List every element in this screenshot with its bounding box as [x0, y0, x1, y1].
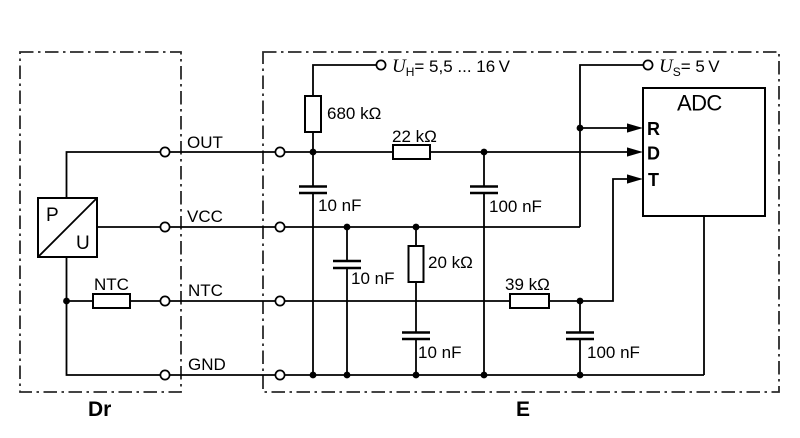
svg-text:T: T: [648, 170, 659, 190]
junction node OUT/680k/10nF: [310, 149, 317, 156]
svg-text:100 nF: 100 nF: [489, 197, 542, 216]
sensor block P/U (pressure to voltage transducer): [38, 198, 97, 257]
junction node GND/100nF: [481, 372, 488, 379]
wire ADC ground return: [703, 216, 705, 375]
junction node GND/10nF mid: [344, 372, 351, 379]
capacitor 100nF (T node to GND): [566, 301, 594, 375]
resistor 20 kOhm body: [409, 246, 424, 282]
svg-text:GND: GND: [188, 355, 226, 374]
svg-text:ADC: ADC: [677, 91, 722, 116]
svg-text:R: R: [647, 119, 660, 139]
junction node NTC sensor tap: [63, 298, 70, 305]
wire US supply vertical to VCC and R input: [580, 65, 643, 227]
terminal NTC (Dr side): [160, 296, 169, 305]
junction node GND/100nF right: [577, 372, 584, 379]
wire GND net: [67, 257, 705, 375]
junction node GND/10nF left: [310, 372, 317, 379]
svg-text:VCC: VCC: [187, 207, 223, 226]
svg-text:NTC: NTC: [188, 281, 223, 300]
junction node OUT/100nF: [481, 149, 488, 156]
terminal OUT (Dr side): [160, 147, 169, 156]
junction node GND/10nF 20k branch: [413, 372, 420, 379]
junction node US/R: [577, 125, 584, 132]
wire OUT net (sensor output to ADC D input): [67, 152, 638, 198]
svg-text:39 kΩ: 39 kΩ: [505, 275, 550, 294]
svg-text:20 kΩ: 20 kΩ: [428, 253, 473, 272]
svg-text:Dr: Dr: [88, 398, 111, 421]
svg-text:US= 5 V: US= 5 V: [659, 56, 720, 79]
svg-text:NTC: NTC: [94, 275, 129, 294]
enclosure box E (ECU, dash-dot border): [263, 52, 779, 392]
resistor 20k with capacitor branch (VCC to GND): [415, 227, 417, 375]
resistor 39 kOhm (series in NTC line): [510, 294, 549, 308]
svg-text:10 nF: 10 nF: [318, 196, 361, 215]
junction node 39k/T/100nF: [577, 298, 584, 305]
svg-text:D: D: [647, 144, 660, 164]
junction node VCC/10nF: [344, 224, 351, 231]
svg-text:P: P: [46, 205, 59, 226]
svg-text:E: E: [516, 398, 530, 421]
terminal UH supply: [376, 60, 385, 69]
ADC block U1: [643, 88, 765, 216]
wire R input branch: [580, 127, 637, 129]
arrowhead into pin R: [627, 123, 643, 132]
capacitor 10nF (VCC to GND): [333, 227, 361, 375]
terminal VCC (Dr side): [160, 222, 169, 231]
resistor NTC (thermistor in Dr box): [93, 294, 130, 308]
svg-text:22 kΩ: 22 kΩ: [392, 127, 437, 146]
wire T input branch from NTC node: [580, 179, 637, 301]
terminal GND (E side): [275, 370, 284, 379]
wire NTC net: [67, 300, 581, 302]
svg-text:U: U: [76, 233, 90, 254]
terminal OUT (E side): [275, 147, 284, 156]
svg-text:680 kΩ: 680 kΩ: [327, 104, 381, 123]
svg-text:100 nF: 100 nF: [587, 343, 640, 362]
wire VCC net: [97, 226, 580, 228]
wire UH supply rail to 680k: [313, 65, 376, 152]
capacitor 10nF (OUT to GND, left): [299, 152, 327, 375]
resistor 22 kOhm (series in OUT line): [393, 145, 430, 159]
terminal GND (Dr side): [160, 370, 169, 379]
arrowhead into pin T: [627, 174, 643, 183]
svg-text:OUT: OUT: [187, 133, 223, 152]
capacitor 10nF (below 20k) plates: [402, 333, 430, 340]
resistor 680 kOhm (UH pull-up): [305, 96, 321, 132]
enclosure box Dr (sensor module, dash-dot border): [20, 52, 181, 392]
capacitor 100nF (OUT/D to GND): [470, 152, 498, 375]
arrowhead into pin D: [627, 147, 643, 156]
terminal NTC (E side): [275, 296, 284, 305]
svg-text:10 nF: 10 nF: [351, 269, 394, 288]
terminal US supply: [643, 60, 652, 69]
svg-text:10 nF: 10 nF: [418, 343, 461, 362]
terminal VCC (E side): [275, 222, 284, 231]
junction node VCC/20k: [413, 224, 420, 231]
